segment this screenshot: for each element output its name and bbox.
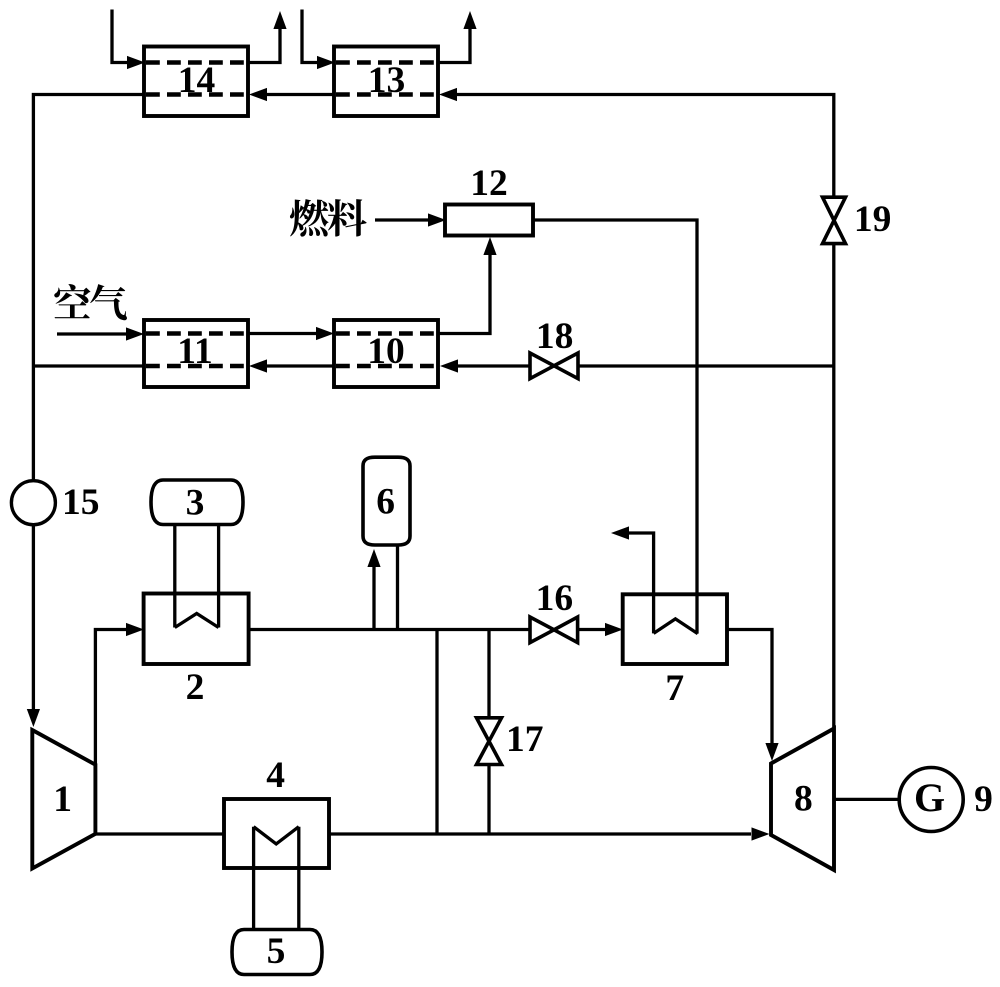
svg-text:5: 5 [267,931,286,972]
combustor 2 [144,594,249,665]
arrow into compressor 1 [27,709,40,727]
label air (qi) [90,284,127,320]
generator 9 [899,768,963,832]
label fuel (liao) [328,199,367,236]
HX10 upper dashed stream [336,331,436,336]
combustor 2 burner flame [175,614,219,628]
HX13 lower dashed stream [336,92,436,97]
arrow up into 6 [367,549,380,567]
wire 7 to turbine 8 [727,630,772,744]
turbine 8 [771,729,834,871]
svg-text:1: 1 [53,779,72,820]
HX14 lower dashed stream [146,92,246,97]
svg-text:10: 10 [367,331,405,372]
svg-text:11: 11 [177,331,212,372]
wire 12 to combustor 7 fuel pipe [533,220,697,634]
svg-text:13: 13 [368,60,406,101]
HX 4 coil vee [254,827,299,844]
wire coolant outlet from 13 [438,29,470,63]
label fuel (ran) [290,199,329,236]
valve 17 [477,718,502,741]
svg-text:16: 16 [536,578,574,619]
combustor 7 [623,594,727,664]
arrow fuel into 12 [428,213,446,226]
wire air inlet [57,332,126,335]
wire 10 to fuel heater 12 [438,253,490,334]
HX13 upper dashed stream [336,60,436,65]
wire 2 to valve 16 [249,628,530,631]
heat exchanger 11 [144,320,248,387]
HX14 upper dashed stream [146,60,246,65]
label air (kong) [54,284,90,318]
wire branch to valve 17 [487,630,490,719]
arrow air into 11 [126,327,144,340]
combustor 7 exhaust pipe [629,533,654,633]
arrow up out of 14 [273,11,286,29]
wire compressor 1 to HX 4 [95,832,224,835]
svg-text:4: 4 [266,755,285,796]
valve 16 [530,617,554,643]
wire valve 18 to 10 [457,364,530,367]
drum 3 [151,480,243,525]
HX11 upper dashed stream [146,331,246,336]
wire coolant inlet to 14 [112,10,128,63]
arrow into 14 left [127,56,145,69]
arrow up out of 13 [463,11,476,29]
wire coolant inlet to 13 [302,10,318,63]
combustor 2 burner pipes [175,525,219,628]
wire riser to tank 6 [372,566,375,630]
arrow into 10 left [316,327,334,340]
svg-text:3: 3 [186,483,205,524]
arrow down into turbine 8 [765,743,778,761]
arrow into turbine 8 left [752,827,770,840]
fuel heater 12 [445,205,533,236]
wire 11 to left riser [33,364,144,367]
wire 15 down to compressor 1 [32,525,35,710]
wire 11 to 10 upper [248,332,316,335]
wire top right riser to 13 [455,95,834,198]
svg-text:18: 18 [536,316,574,357]
wire fuel inlet [375,218,428,221]
tank 6 [363,457,410,545]
combustor 7 burner flame [654,619,698,634]
arrow into 7 [605,623,623,636]
wire branch to bottom line [435,630,438,835]
svg-text:14: 14 [178,60,216,101]
wire coolant outlet from 14 [248,29,280,63]
wire tank 6 return [396,546,399,630]
wire right riser to valve 18 [577,364,834,367]
wire HX 4 to turbine 8 [329,832,751,835]
svg-text:17: 17 [506,719,544,760]
svg-text:2: 2 [186,667,205,708]
arrow into 14 right [249,88,267,101]
svg-text:15: 15 [62,482,100,523]
arrow exhaust out of 7 [611,526,629,539]
arrow into 2 [126,623,144,636]
svg-text:6: 6 [376,482,395,523]
valve 18 [530,353,554,379]
wire valve 16 to combustor 7 [578,628,605,631]
heat exchanger 10 [334,320,438,387]
arrow into 10 right [440,359,458,372]
drum 5 [232,930,322,975]
svg-text:G: G [914,775,945,820]
HX 4 coil pipes [254,827,299,930]
wire valve 19 down to turbine 8 [832,244,835,729]
wire 14 down left side [33,95,144,481]
heat exchanger 4 [224,799,329,868]
heat exchanger 14 [144,47,248,117]
arrow into 13 right [439,88,457,101]
wire valve 17 to bottom line [487,765,490,835]
HX11 lower dashed stream [146,364,246,369]
wire 13 to 14 [265,93,334,96]
wire compressor 1 to combustor 2 [95,630,126,765]
heat exchanger 13 [334,47,438,117]
svg-text:12: 12 [470,163,508,204]
svg-text:19: 19 [854,199,892,240]
valve 19 [823,197,846,220]
svg-text:8: 8 [794,779,813,820]
wire 10 to 11 lower [267,364,334,367]
arrow up into 12 [483,237,496,255]
wire turbine 8 shaft [834,798,900,801]
arrow into 13 left [317,56,335,69]
HX10 lower dashed stream [336,364,436,369]
flow meter 15 [11,481,55,525]
svg-text:9: 9 [974,779,993,820]
svg-text:7: 7 [665,668,684,709]
compressor 1 [32,730,95,868]
arrow into 11 right [249,359,267,372]
